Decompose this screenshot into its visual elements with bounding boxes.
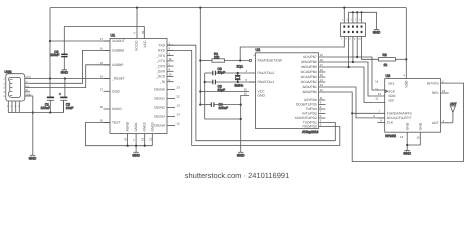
U3 DCLK stub [378, 117, 385, 119]
IC U1 FT232R box [110, 39, 167, 134]
node junction 3V3OUT [49, 40, 51, 42]
resistor R2 [379, 58, 407, 61]
svg-text:13: 13 [375, 88, 379, 92]
svg-text:4: 4 [133, 32, 137, 34]
node junction FSK tee [351, 112, 353, 114]
svg-text:U2: U2 [256, 48, 261, 52]
svg-text:FSK/DATA/NFFS: FSK/DATA/NFFS [387, 112, 413, 116]
svg-text:25: 25 [124, 137, 128, 141]
node junction shield rail [32, 111, 34, 113]
wire shield stub 2 [11, 101, 13, 113]
svg-text:1k: 1k [384, 63, 388, 67]
svg-text:15: 15 [100, 61, 104, 65]
svg-text:GND3: GND3 [150, 122, 154, 131]
svg-text:RXD: RXD [158, 49, 166, 53]
svg-text:100nF: 100nF [219, 106, 228, 110]
svg-text:GND: GND [258, 94, 266, 98]
svg-text:2: 2 [3, 82, 5, 85]
wire header pin MOSI [348, 37, 350, 68]
svg-text:13: 13 [400, 135, 404, 139]
svg-text:28: 28 [100, 105, 104, 109]
capacitor C2 [59, 79, 67, 113]
svg-text:RES: RES [432, 91, 440, 95]
svg-text:RXD/PD0: RXD/PD0 [303, 125, 317, 129]
svg-text:16: 16 [320, 68, 324, 72]
wire RESET to header [240, 37, 344, 61]
svg-text:_DSR: _DSR [155, 70, 165, 74]
svg-text:4: 4 [3, 91, 5, 94]
svg-text:OSCI: OSCI [112, 90, 120, 94]
label USB [5, 70, 13, 74]
node junction C1 top [64, 77, 66, 79]
svg-text:OC0A/PB2: OC0A/PB2 [301, 80, 317, 84]
svg-text:9: 9 [359, 19, 361, 22]
svg-text:_RESET: _RESET [111, 77, 125, 81]
svg-text:8: 8 [354, 38, 356, 41]
svg-text:10: 10 [169, 73, 173, 77]
svg-text:SDO: SDO [388, 94, 396, 98]
svg-text:12: 12 [378, 92, 382, 96]
wire U3 ground pins [407, 132, 420, 150]
svg-text:VCC: VCC [26, 76, 32, 79]
U2 left pin numbers [244, 53, 255, 96]
svg-text:SDI: SDI [388, 99, 394, 103]
svg-text:AIN0/PB0: AIN0/PB0 [302, 90, 317, 94]
U1 left pin numbers [100, 37, 104, 123]
label RFM02 [385, 134, 396, 138]
IC U2 ATtiny2313 box [256, 53, 319, 129]
U1 left pin stubs [104, 41, 111, 123]
svg-text:_DTR: _DTR [155, 64, 165, 68]
node junction C5 left [204, 81, 206, 83]
crystal ZQ1 [235, 73, 240, 82]
node junction C1 bottom [49, 111, 51, 113]
label ATtiny2313 [302, 130, 319, 134]
U3 left pin names [387, 82, 413, 125]
svg-text:22pF: 22pF [218, 70, 226, 74]
wire U1 RXD to U2 TXD bus [167, 50, 340, 145]
svg-text:8MHz: 8MHz [235, 84, 244, 88]
svg-text:INT/VDI: INT/VDI [427, 81, 439, 85]
label U3 [386, 74, 391, 78]
svg-text:CBUS3: CBUS3 [154, 115, 165, 119]
svg-text:_RI: _RI [159, 80, 165, 84]
svg-text:XCK/INT0/PD2: XCK/INT0/PD2 [295, 116, 317, 120]
svg-text:10: 10 [358, 38, 361, 41]
connector USB XS1 [6, 74, 30, 101]
svg-text:ZQ1: ZQ1 [237, 64, 244, 68]
svg-text:19: 19 [320, 53, 324, 57]
svg-text:10: 10 [244, 92, 248, 96]
label C2 [66, 103, 74, 110]
node junction R1 left [199, 59, 201, 61]
svg-text:16: 16 [416, 135, 420, 139]
U1 right pin numbers [169, 41, 181, 125]
label USB pin names [26, 76, 32, 97]
node junction R2 right [405, 58, 407, 60]
capacitor C3 [61, 54, 67, 69]
svg-text:MISO/PB6: MISO/PB6 [301, 60, 317, 64]
ground for USB [29, 155, 37, 160]
svg-text:_DCD: _DCD [155, 75, 166, 79]
svg-text:PA2/RESET/DW: PA2/RESET/DW [258, 59, 283, 63]
svg-text:23: 23 [177, 86, 181, 90]
svg-text:AIN1/PB1: AIN1/PB1 [302, 85, 317, 89]
U1 top pin numbers [133, 30, 145, 34]
svg-text:PA0/XTAL1: PA0/XTAL1 [258, 80, 275, 84]
svg-text:13: 13 [177, 104, 181, 108]
svg-text:22k: 22k [214, 55, 220, 59]
connector header ISP [341, 8, 377, 37]
label USB pin numbers [3, 78, 5, 99]
svg-text:100nF: 100nF [50, 53, 59, 57]
svg-text:CBUS2: CBUS2 [154, 106, 165, 110]
svg-text:2: 2 [341, 38, 343, 41]
wire USB VBUS to U1 RESET [30, 78, 110, 80]
svg-text:18: 18 [320, 58, 324, 62]
svg-text:OC1A/PB3: OC1A/PB3 [301, 75, 317, 79]
wire U1 VCC pin to top rail [136, 8, 138, 39]
label ANT [450, 102, 457, 106]
svg-text:DCLK/CFIL/FFIT: DCLK/CFIL/FFIT [387, 116, 412, 120]
node junction header MISO [352, 61, 354, 63]
node junction C4 right [240, 104, 242, 106]
wire U1 ground pins to rail [86, 123, 153, 146]
wire U2 MOSI to U3 [325, 67, 384, 103]
svg-text:20: 20 [141, 30, 145, 34]
svg-text:ATtiny2313: ATtiny2313 [302, 130, 319, 134]
svg-text:GND: GND [29, 157, 37, 161]
label C5 [218, 85, 226, 92]
U2 left pin names [258, 59, 283, 98]
svg-text:1: 1 [253, 53, 255, 57]
ground for C3 [61, 70, 69, 75]
U2 left pin stubs [249, 73, 256, 82]
svg-text:22: 22 [177, 95, 181, 99]
ground for U1 [132, 146, 140, 158]
capacitor C1 [47, 97, 54, 112]
svg-text:GND1: GND1 [134, 122, 138, 131]
svg-text:T0/PD4: T0/PD4 [306, 107, 317, 111]
label C3 value [50, 50, 59, 57]
svg-text:5: 5 [3, 95, 5, 98]
svg-text:ID: ID [26, 89, 29, 92]
U1 bottom pin numbers [124, 137, 153, 141]
wire crystal left rail [205, 73, 241, 119]
wire U2 AIN0 to U3 FSK [325, 92, 384, 113]
svg-text:U1: U1 [111, 34, 116, 38]
svg-text:10uF: 10uF [66, 106, 74, 110]
svg-text:21: 21 [148, 137, 152, 141]
node junction VBUS wire [49, 77, 51, 79]
IC U3 RFM02 box [385, 79, 441, 133]
label U1 [111, 34, 116, 38]
svg-text:CBUS0: CBUS0 [154, 88, 165, 92]
label U2 [256, 48, 261, 52]
svg-text:19: 19 [100, 75, 104, 79]
U3 top pin number [403, 74, 405, 78]
svg-text:GND: GND [26, 93, 32, 96]
svg-text:GND: GND [419, 122, 423, 130]
svg-text:VCCIO: VCCIO [135, 40, 139, 51]
node junction header MOSI [348, 66, 350, 68]
svg-text:16: 16 [100, 47, 104, 51]
svg-text:GND2: GND2 [143, 122, 147, 131]
wire vertical from top rail to U3 VDD [405, 8, 407, 79]
label C4 [219, 103, 228, 110]
wire left vertical VBUS column [49, 8, 51, 97]
svg-text:_CTS: _CTS [156, 59, 166, 63]
ground for U3 [403, 151, 411, 156]
svg-text:27: 27 [100, 88, 104, 92]
label C6 [218, 67, 226, 74]
U1 bottom pin names [126, 121, 155, 131]
resistor R1 [200, 59, 249, 62]
wire VCC top rail [50, 7, 406, 9]
svg-text:TEST: TEST [112, 121, 120, 125]
node junction U3 ground [406, 144, 408, 146]
svg-text:shutterstock.com · 2410116991: shutterstock.com · 2410116991 [185, 171, 290, 180]
svg-text:GND: GND [61, 70, 69, 74]
label R1 [214, 52, 220, 59]
U2 right pin names [295, 55, 317, 129]
svg-text:GND: GND [405, 122, 409, 130]
svg-text:12: 12 [320, 88, 324, 92]
wire shield stub 3 [15, 101, 17, 113]
wire U2 GND down [241, 96, 249, 153]
svg-text:6: 6 [350, 38, 352, 41]
node junctions header top [352, 11, 363, 13]
wire header pin VCC to R2 [362, 37, 379, 60]
svg-text:5: 5 [351, 19, 353, 22]
svg-text:GND: GND [403, 152, 411, 156]
svg-text:8: 8 [18, 105, 20, 108]
svg-text:SCK: SCK [388, 90, 396, 94]
svg-text:GND: GND [373, 31, 381, 35]
svg-text:4: 4 [403, 74, 405, 78]
svg-text:USBDP: USBDP [112, 63, 124, 67]
U3 bottom pin numbers [400, 135, 420, 139]
wire U1 TXD to U2 RXD bus [167, 45, 335, 141]
wire 3V3OUT to U1 [50, 40, 110, 42]
svg-text:14: 14 [177, 113, 181, 117]
svg-text:ICP/PD6: ICP/PD6 [304, 98, 317, 102]
node junction RESET net [239, 59, 241, 61]
svg-text:VCC: VCC [143, 40, 147, 48]
svg-text:RFM02: RFM02 [385, 134, 396, 138]
node junction header SCK [356, 56, 358, 58]
svg-text:MOSI/PB5: MOSI/PB5 [301, 65, 317, 69]
U3 left pin numbers [373, 79, 382, 122]
U1 right pin names [154, 43, 166, 127]
U3 top pin VDD [404, 80, 408, 88]
node junction GND rail right [240, 118, 242, 120]
svg-text:INT1/PD3: INT1/PD3 [302, 112, 317, 116]
svg-text:USBDM: USBDM [112, 49, 124, 53]
wire VCCIO rail [64, 27, 144, 54]
svg-text:16: 16 [442, 89, 446, 93]
svg-text:CBUS1: CBUS1 [154, 97, 165, 101]
svg-text:ANT: ANT [432, 121, 439, 125]
U3 right pin stubs [441, 83, 453, 123]
svg-text:3: 3 [346, 19, 348, 22]
svg-text:3V3OUT: 3V3OUT [112, 39, 125, 43]
svg-text:15: 15 [320, 73, 324, 77]
svg-text:+: + [59, 92, 61, 96]
node junction top rail at header column [343, 7, 345, 9]
svg-text:11: 11 [375, 97, 378, 101]
svg-text:TXD: TXD [158, 43, 165, 47]
svg-text:D+: D+ [26, 85, 30, 88]
wire USB D- to U1 USBDM [30, 50, 110, 83]
U2 RESET bubble [249, 59, 251, 61]
svg-text:PA1/XTAL2: PA1/XTAL2 [258, 71, 275, 75]
svg-text:11: 11 [169, 57, 172, 61]
svg-text:11: 11 [320, 96, 323, 100]
U3 right pin names [427, 81, 440, 125]
svg-text:4: 4 [345, 38, 347, 41]
svg-text:17: 17 [320, 63, 324, 67]
svg-text:CBUS4: CBUS4 [154, 124, 165, 128]
svg-text:CLK: CLK [387, 121, 394, 125]
svg-text:3: 3 [3, 87, 5, 90]
U1 left pin names [111, 39, 125, 125]
svg-text:OSCO: OSCO [112, 107, 122, 111]
U1 right pin stubs [167, 45, 175, 125]
wire shield stub 4 [18, 101, 20, 113]
wire FSK to INT/VDI loop [352, 83, 463, 161]
svg-text:D-: D- [26, 81, 29, 84]
svg-text:GND: GND [132, 154, 140, 158]
U3 CLK stub [378, 122, 385, 124]
capacitor C5 [205, 80, 256, 85]
label C1 [41, 103, 50, 110]
wire U2 AIN1 to U3 DCLK [325, 87, 384, 118]
label header pin numbers top [342, 19, 361, 22]
node junction crystal bottom [237, 81, 239, 83]
svg-text:_RTS: _RTS [156, 54, 166, 58]
svg-text:12: 12 [177, 122, 181, 126]
svg-text:14: 14 [320, 78, 324, 82]
svg-text:AGND: AGND [126, 121, 130, 131]
wire U2 SCK to U3 [325, 57, 384, 90]
wire R1 VCC column [199, 8, 201, 105]
ground for header [373, 30, 381, 35]
ground for U2 [237, 152, 245, 157]
svg-text:7: 7 [132, 139, 136, 141]
U3 SCK input arrow [385, 90, 387, 92]
wire U2 MISO to U3 [325, 62, 384, 96]
U2 right pin stubs [319, 57, 326, 118]
label R2 [383, 53, 388, 67]
antenna ANT [450, 106, 455, 123]
label ZQ1 [235, 64, 244, 87]
wire shield rail [8, 100, 63, 112]
U3 right pin numbers [442, 79, 446, 123]
node junction U2 VCC wire [199, 90, 201, 92]
label header pin numbers bottom [341, 38, 362, 41]
wire USB GND down [30, 96, 33, 155]
svg-text:100nF: 100nF [41, 106, 50, 110]
svg-text:USB: USB [5, 70, 13, 74]
wire header pin MISO [352, 37, 354, 63]
node junction crystal top [237, 72, 239, 74]
svg-text:R2: R2 [383, 53, 387, 57]
node junction top rail at R1 column [199, 7, 201, 9]
svg-text:ANT: ANT [450, 102, 457, 106]
svg-text:14: 14 [375, 79, 379, 83]
svg-text:17: 17 [100, 37, 104, 41]
label USB shield pin marks [7, 105, 20, 108]
svg-text:1: 1 [342, 19, 344, 22]
svg-text:OC1B/PB4: OC1B/PB4 [301, 70, 317, 74]
wire USB D+ to U1 USBDP [30, 65, 110, 88]
svg-text:1: 1 [3, 78, 5, 81]
svg-text:U3: U3 [386, 74, 391, 78]
capacitor C4 [200, 102, 240, 107]
svg-text:OC0B/T1/PD5: OC0B/T1/PD5 [296, 103, 317, 107]
svg-text:7: 7 [355, 19, 357, 22]
svg-text:GND: GND [237, 154, 245, 158]
svg-text:SEL: SEL [388, 82, 394, 86]
U2 right pin numbers [320, 53, 324, 127]
U3 bottom pin names [405, 122, 422, 130]
wire header pin SCK [356, 37, 358, 58]
node junction top rail at U1 VCC [136, 7, 138, 9]
svg-text:VDD: VDD [404, 80, 408, 88]
svg-text:13: 13 [320, 83, 324, 87]
svg-text:18: 18 [141, 137, 145, 141]
svg-text:SCK/PB7: SCK/PB7 [303, 55, 317, 59]
node junctions U1 ground rail [127, 145, 146, 147]
node junction C4 left [199, 104, 201, 106]
capacitor C6 [205, 71, 249, 76]
wire U2 VCC [200, 91, 249, 93]
U1 top pin names [135, 40, 147, 51]
